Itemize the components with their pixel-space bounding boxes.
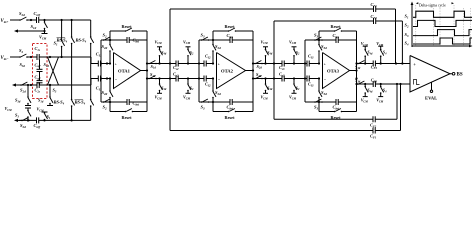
svg-text:VCM: VCM bbox=[376, 41, 384, 47]
wire stage1 reset loop top bbox=[110, 31, 147, 40]
svg-text:S4d: S4d bbox=[267, 85, 273, 91]
op-amp OTA1 bbox=[114, 53, 141, 89]
switch S4d tap A up bbox=[155, 39, 167, 56]
svg-text:+: + bbox=[413, 62, 416, 67]
svg-text:VCM: VCM bbox=[361, 98, 369, 104]
svg-text:Reset: Reset bbox=[122, 115, 133, 120]
capacitor s2 upper bbox=[173, 61, 179, 71]
svg-text:CF3: CF3 bbox=[371, 64, 378, 70]
switch S3d (summing lower rail) bbox=[355, 78, 366, 85]
wire stage2 bottom loop bbox=[199, 101, 253, 103]
svg-text:Cs3: Cs3 bbox=[279, 72, 285, 78]
svg-text:Cs2: Cs2 bbox=[173, 72, 179, 78]
svg-text:VCM: VCM bbox=[261, 39, 269, 45]
svg-text:C2s: C2s bbox=[35, 88, 41, 94]
svg-text:S4d: S4d bbox=[367, 50, 373, 56]
node VCM x50 bbox=[37, 107, 45, 113]
svg-text:Coff: Coff bbox=[35, 75, 42, 81]
wire jog upper rail bbox=[91, 57, 98, 64]
capacitor Cint (stage1 top) bbox=[127, 37, 139, 44]
svg-text:OTA2: OTA2 bbox=[221, 68, 234, 73]
svg-text:CI2: CI2 bbox=[205, 82, 211, 88]
svg-text:VCM: VCM bbox=[155, 94, 163, 100]
wire mid upper to stage1 bbox=[62, 56, 91, 58]
switch S4 VCM tap down 2 bbox=[376, 83, 387, 104]
wire upper rail 147.0-213 bbox=[147, 63, 213, 65]
node VCM x28 bbox=[5, 106, 32, 112]
switch S2 (stage1 integ top) bbox=[103, 33, 112, 41]
wire top branch to columns bbox=[39, 19, 91, 21]
switch S2 tap B down bbox=[289, 83, 300, 100]
wire VCM tap B down (188.0) bbox=[186, 77, 191, 93]
svg-text:BS·S4: BS·S4 bbox=[74, 100, 86, 106]
svg-text:S4: S4 bbox=[383, 88, 387, 94]
svg-text:BS·S4: BS·S4 bbox=[75, 38, 87, 44]
wire stage1 reset loop bottom bbox=[110, 102, 147, 112]
svg-text:CI3: CI3 bbox=[308, 82, 314, 88]
svg-text:+: + bbox=[324, 62, 326, 66]
svg-text:−: − bbox=[324, 77, 327, 82]
wire stage1 bottom loop bbox=[101, 101, 147, 103]
svg-text:Cint: Cint bbox=[227, 33, 234, 39]
node Vin+ input bbox=[1, 19, 21, 24]
switch S1d (x50 upper) bbox=[38, 96, 53, 105]
switch S1d upper (147.0) bbox=[148, 61, 157, 70]
wire into red box bbox=[27, 56, 37, 58]
label EVAL bbox=[425, 96, 437, 101]
switch S3d (x28 upper) bbox=[15, 96, 31, 105]
capacitor Coff2 (floating) bbox=[35, 72, 43, 83]
svg-text:S1d: S1d bbox=[151, 64, 157, 70]
wire EVAL clock stub bbox=[430, 82, 432, 93]
switch S2 (Vin- branch) bbox=[19, 48, 28, 58]
wire CF2 feedforward bottom bbox=[274, 84, 397, 119]
wire stage3 reset loop bottom bbox=[319, 102, 357, 112]
switch S1d upper (253.0) bbox=[254, 61, 263, 70]
svg-text:Coff: Coff bbox=[34, 123, 42, 129]
svg-text:S2d: S2d bbox=[215, 44, 221, 50]
wire upper rail 253.0-319 bbox=[253, 63, 319, 65]
switch nBS-S4 (top col1) bbox=[56, 36, 75, 44]
svg-text:S3d: S3d bbox=[355, 64, 361, 70]
svg-text:S2d: S2d bbox=[20, 123, 26, 129]
wire stage3 reset loop top bbox=[319, 31, 357, 40]
switch S4d tap A down bbox=[155, 83, 167, 100]
svg-text:CF1: CF1 bbox=[371, 2, 378, 8]
capacitor Cint (stage2 bottom) bbox=[227, 99, 234, 111]
wire C2s out bbox=[39, 84, 58, 86]
svg-text:−: − bbox=[115, 77, 118, 82]
wire Coff to C2s bbox=[39, 83, 41, 85]
label S3d mid bbox=[20, 62, 26, 68]
capacitor CF1 top bbox=[371, 2, 378, 12]
svg-text:VCM: VCM bbox=[183, 39, 191, 45]
wire comparator output bbox=[450, 72, 455, 75]
svg-text:VCM: VCM bbox=[39, 35, 47, 41]
wire VCM arrow stub (top) bbox=[14, 29, 48, 41]
waveform S4 bbox=[405, 38, 473, 47]
wire BS column 1 bbox=[71, 20, 73, 120]
svg-text:S2d: S2d bbox=[257, 64, 263, 70]
wire CF2 feedforward top bbox=[273, 21, 403, 119]
svg-text:S2d: S2d bbox=[102, 44, 108, 50]
svg-text:VCM: VCM bbox=[361, 41, 369, 47]
svg-text:S4: S4 bbox=[405, 41, 409, 47]
svg-text:S2d: S2d bbox=[215, 90, 221, 96]
switch S1 (riser) bbox=[54, 39, 65, 47]
wire lower rail 253.0-319 bbox=[253, 78, 319, 80]
wire VCM tap A up (159.5) bbox=[157, 47, 162, 65]
node Vin- lower branch bbox=[12, 83, 37, 86]
switch S4d tap A down bbox=[261, 83, 273, 100]
wire VCM tap B up (294.0) bbox=[292, 47, 297, 65]
svg-text:CI3: CI3 bbox=[308, 54, 314, 60]
svg-text:Cint: Cint bbox=[333, 33, 340, 39]
comparator EVAL bbox=[410, 56, 450, 93]
svg-text:Cint: Cint bbox=[133, 101, 140, 107]
wire OTA1 output riser bbox=[141, 31, 149, 112]
svg-text:S2: S2 bbox=[190, 85, 194, 91]
svg-text:OTA3: OTA3 bbox=[327, 68, 340, 73]
wire S1 riser bbox=[61, 20, 63, 57]
switch BS-S4 (bottom col1) bbox=[53, 99, 75, 107]
svg-text:S2: S2 bbox=[103, 105, 108, 111]
wire upper rail to summing bbox=[357, 62, 411, 64]
switch nBS-S4 (bottom col2) bbox=[74, 99, 94, 107]
svg-text:S3: S3 bbox=[405, 32, 409, 38]
switch S3 (stage2 integ top) bbox=[201, 33, 210, 41]
svg-text:Reset: Reset bbox=[225, 115, 236, 120]
switch S3 (stage3 integ bottom) bbox=[314, 99, 323, 111]
label Delta-sigma cycle bbox=[416, 2, 454, 7]
svg-text:S2: S2 bbox=[296, 85, 300, 91]
wire chopper cross b bbox=[48, 57, 59, 85]
capacitor s3 lower bbox=[279, 72, 285, 82]
svg-text:OTA1: OTA1 bbox=[118, 68, 131, 73]
switch S1d (tap top) bbox=[31, 20, 48, 30]
svg-text:S2d: S2d bbox=[19, 11, 25, 17]
svg-text:S3d: S3d bbox=[321, 90, 327, 96]
svg-text:S3d: S3d bbox=[20, 62, 26, 68]
wire chopper cross a bbox=[48, 57, 59, 85]
switch BS-S4 (top col2) bbox=[75, 36, 94, 44]
wire stage1 top loop bbox=[100, 39, 147, 102]
wire VCM riser x28 bbox=[27, 84, 29, 97]
timing axis horizontal bbox=[412, 45, 473, 48]
wire jog lower rail bbox=[91, 79, 98, 86]
svg-text:VCM: VCM bbox=[289, 39, 297, 45]
switch S3 (stage2 integ bottom) bbox=[201, 99, 210, 111]
capacitor I2 upper bbox=[204, 54, 211, 67]
switch S2d (stage2 bottom riser) bbox=[212, 90, 221, 102]
op-amp OTA2 bbox=[217, 53, 246, 89]
switch S4 VCM tap up 2 bbox=[376, 41, 387, 65]
svg-text:VCM: VCM bbox=[5, 106, 13, 112]
svg-text:Cint: Cint bbox=[133, 38, 140, 44]
wire CF1 feedforward top bbox=[169, 9, 396, 131]
capacitor I3 upper bbox=[307, 54, 314, 67]
svg-text:Coff: Coff bbox=[35, 62, 42, 68]
capacitor I3 lower bbox=[307, 76, 314, 88]
svg-text:+: + bbox=[115, 62, 117, 66]
switch S3d (stage3 bottom riser) bbox=[318, 90, 327, 102]
timing gridlines bbox=[416, 5, 471, 46]
svg-text:Reset: Reset bbox=[122, 24, 133, 29]
svg-text:EVAL: EVAL bbox=[425, 96, 437, 101]
svg-text:S2d: S2d bbox=[20, 88, 26, 94]
wire VCM riser x50 bbox=[49, 84, 51, 97]
svg-text:S4d: S4d bbox=[367, 88, 373, 94]
wire VCM tap B up (188.0) bbox=[186, 47, 191, 65]
svg-text:S2: S2 bbox=[19, 48, 24, 54]
svg-text:S2: S2 bbox=[103, 33, 108, 39]
capacitor s2 lower bbox=[173, 72, 179, 82]
wire OTA1 input riser top bbox=[109, 51, 111, 65]
wire bottom branch bbox=[14, 119, 91, 122]
switch S2 tap B up bbox=[289, 39, 300, 56]
switch Reset (stage3 top) bbox=[331, 24, 343, 32]
switch S1d lower (253.0) bbox=[254, 72, 263, 79]
wire stage3 top loop bbox=[304, 39, 357, 102]
capacitor Cint (stage1 bottom) bbox=[127, 99, 139, 107]
switch Reset (stage3 bottom) bbox=[331, 109, 343, 120]
svg-text:Vin+: Vin+ bbox=[1, 19, 9, 24]
svg-text:S3d: S3d bbox=[15, 98, 21, 104]
timing axis vertical bbox=[411, 2, 414, 48]
capacitor CF3 lower bbox=[371, 78, 378, 87]
capacitor Cint (stage3 top) bbox=[333, 33, 340, 43]
wire OTA2 output riser bbox=[246, 31, 255, 112]
svg-text:Vin−: Vin− bbox=[1, 56, 9, 61]
wire stage2 reset loop top bbox=[213, 31, 253, 40]
svg-text:VCM: VCM bbox=[261, 94, 269, 100]
wire stage3 bottom loop bbox=[305, 101, 357, 103]
waveform S1 bbox=[405, 11, 473, 19]
svg-text:S1d: S1d bbox=[150, 72, 156, 78]
switch S2d (lower mid branch) bbox=[20, 82, 29, 94]
svg-text:CF1: CF1 bbox=[370, 134, 377, 140]
switch S1d lower (147.0) bbox=[148, 72, 157, 79]
switch S2 (stage1 integ bottom) bbox=[103, 99, 112, 111]
switch S4d VCM tap down 1 bbox=[361, 83, 373, 104]
svg-text:Reset: Reset bbox=[331, 24, 342, 29]
wire lower rail 147.0-213 bbox=[147, 78, 213, 80]
svg-text:BS·S4: BS·S4 bbox=[53, 100, 65, 106]
svg-text:VCM: VCM bbox=[183, 94, 191, 100]
capacitor CF1 bottom bbox=[370, 128, 377, 140]
wire OTA3 output riser bbox=[350, 31, 358, 112]
svg-text:Delta-sigma cycle: Delta-sigma cycle bbox=[419, 3, 446, 7]
capacitor Coff (top branch) bbox=[34, 11, 42, 23]
capacitor C1s bbox=[35, 46, 41, 60]
svg-text:CI2: CI2 bbox=[205, 54, 211, 60]
switch S4d tap A up bbox=[261, 39, 273, 56]
waveform S2 bbox=[405, 20, 473, 28]
svg-text:C1s: C1s bbox=[35, 46, 41, 52]
svg-text:S3: S3 bbox=[314, 33, 319, 39]
capacitor Cint (stage3 bottom) bbox=[333, 99, 340, 111]
wire CF1 feedforward bottom bbox=[170, 84, 401, 131]
svg-text:S3: S3 bbox=[53, 88, 57, 94]
wire OTA3 input riser bottom bbox=[318, 77, 320, 91]
svg-text:S3: S3 bbox=[201, 33, 206, 39]
label S3 (chopper) bbox=[53, 88, 57, 94]
wire CI1 to OTA1 bbox=[101, 62, 111, 64]
switch S2 tap B down bbox=[183, 83, 194, 100]
wire stage2 top loop bbox=[198, 39, 253, 102]
switch S2d (Vin+ branch) bbox=[19, 11, 28, 21]
wire VCM tap A down (159.5) bbox=[157, 77, 162, 93]
svg-text:Reset: Reset bbox=[225, 24, 236, 29]
wire VCM tap B down (294.0) bbox=[292, 77, 297, 93]
svg-text:VCM: VCM bbox=[376, 98, 384, 104]
wire stage2 reset loop bottom bbox=[213, 102, 253, 112]
capacitor C2s bbox=[35, 82, 41, 93]
capacitor CF2 bottom bbox=[370, 116, 377, 128]
capacitor Coff1 (floating) bbox=[35, 60, 43, 72]
svg-text:BS: BS bbox=[457, 73, 463, 78]
svg-text:S4d: S4d bbox=[161, 85, 167, 91]
switch S4d VCM tap up 1 bbox=[361, 41, 373, 65]
wire C1s out bbox=[39, 56, 63, 58]
svg-text:S2d: S2d bbox=[102, 90, 108, 96]
svg-text:VCM: VCM bbox=[155, 39, 163, 45]
capacitor CI1 upper bbox=[96, 52, 102, 67]
offset-storage cap bank (red dashed box) bbox=[33, 44, 48, 99]
switch Reset (stage1 bottom) bbox=[122, 109, 134, 120]
switch Reset (stage2 top) bbox=[225, 24, 237, 32]
wire CI1b to OTA1 bbox=[101, 77, 111, 79]
capacitor Coff (bottom branch) bbox=[34, 117, 42, 129]
node BS output bbox=[457, 73, 463, 78]
capacitor s3 upper bbox=[279, 61, 285, 71]
svg-text:S1d: S1d bbox=[44, 62, 50, 68]
svg-text:S3d: S3d bbox=[321, 44, 327, 50]
svg-text:−: − bbox=[218, 77, 221, 82]
capacitor CI1 lower bbox=[96, 76, 102, 92]
switch S2d (bottom branch) bbox=[20, 117, 30, 129]
label S1d mid bbox=[44, 62, 50, 68]
switch S2 tap B up bbox=[183, 39, 194, 56]
switch S2d (stage1 bottom riser) bbox=[102, 90, 114, 102]
wire OTA2 input riser top bbox=[212, 51, 214, 65]
wire mid lower to stage1 bbox=[58, 84, 91, 86]
svg-text:Coff: Coff bbox=[34, 11, 42, 17]
svg-text:S2: S2 bbox=[405, 23, 409, 29]
node Vin- input bbox=[1, 56, 21, 61]
wire lower rail to summing bbox=[355, 83, 410, 85]
svg-text:CF3: CF3 bbox=[371, 78, 378, 84]
svg-text:S3: S3 bbox=[15, 113, 19, 119]
svg-text:+: + bbox=[218, 62, 220, 66]
svg-text:VCM: VCM bbox=[289, 94, 297, 100]
svg-text:S3: S3 bbox=[201, 105, 206, 111]
wire Vin+ branch bbox=[27, 19, 46, 21]
svg-text:S3: S3 bbox=[314, 105, 319, 111]
wire OTA2 input riser bottom bbox=[212, 77, 214, 91]
switch S3 (stage3 integ top) bbox=[314, 33, 323, 41]
switch S1 (tap bottom) bbox=[44, 112, 51, 120]
switch S3d (summing upper rail) bbox=[355, 61, 366, 71]
svg-text:S1d: S1d bbox=[31, 24, 37, 30]
wire VCM tap A down (265.5) bbox=[263, 77, 268, 93]
capacitor CF3 upper bbox=[371, 61, 378, 71]
capacitor CF2 top bbox=[371, 14, 378, 24]
svg-text:S3d: S3d bbox=[355, 78, 361, 84]
waveform S3 bbox=[405, 30, 473, 38]
op-amp OTA3 bbox=[323, 53, 350, 89]
svg-text:CF2: CF2 bbox=[371, 14, 378, 20]
svg-text:S1: S1 bbox=[405, 14, 409, 20]
switch S3 (x28 lower) bbox=[15, 110, 31, 122]
wire BS column 2 bbox=[90, 20, 92, 120]
capacitor Cint (stage2 top) bbox=[227, 33, 234, 43]
switch S3d (stage3 top riser) bbox=[318, 40, 327, 52]
switch S2d (stage2 top riser) bbox=[212, 40, 221, 52]
wire OTA1 input riser bottom bbox=[109, 77, 111, 91]
switch Reset (stage2 bottom) bbox=[225, 109, 237, 120]
wire VCM tap A up (265.5) bbox=[263, 47, 268, 65]
node VCM bottom tap bbox=[42, 112, 48, 113]
capacitor I2 lower bbox=[204, 76, 211, 88]
switch S2d (stage1 top riser) bbox=[102, 40, 114, 52]
svg-text:S2d: S2d bbox=[256, 72, 262, 78]
wire OTA3 input riser top bbox=[318, 51, 320, 65]
switch Reset (stage1 top) bbox=[122, 24, 134, 32]
